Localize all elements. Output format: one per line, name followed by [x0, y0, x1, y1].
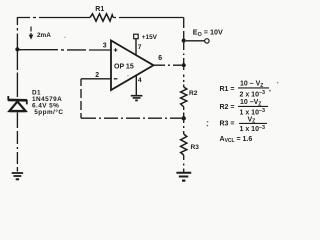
pin 7 wire — [135, 39, 137, 55]
wire feedback vertical — [80, 79, 82, 118]
ground op-amp — [131, 96, 143, 98]
wire top horizontal right — [113, 17, 184, 19]
node EO junction dot — [182, 39, 186, 43]
node A junction dot left — [15, 47, 19, 51]
current arrow 2mA — [30, 27, 32, 36]
op-amp U1 triangle — [111, 41, 154, 91]
svg-text:R2: R2 — [189, 90, 198, 97]
svg-text:7: 7 — [138, 44, 142, 51]
svg-text:R3 =: R3 = — [220, 120, 235, 127]
wire op-amp output (dash-dot) — [154, 64, 182, 66]
wire zener upper — [16, 52, 18, 98]
zener D1 — [8, 96, 27, 104]
svg-text:5ppm/°C: 5ppm/°C — [34, 108, 63, 116]
wire R2 to feedback node — [183, 107, 185, 117]
wire feedback node to R3 (dashed) — [183, 121, 185, 135]
speck near 2mA — [64, 37, 65, 38]
wire right vertical to EO node — [183, 18, 185, 41]
resistor R1 — [90, 14, 113, 21]
resistor R3 — [181, 134, 187, 155]
svg-text:AVCL = 1.6: AVCL = 1.6 — [220, 136, 253, 144]
node output junction dot — [182, 63, 186, 67]
speck right of R2 formula — [269, 90, 271, 92]
svg-text:R2 =: R2 = — [220, 104, 235, 111]
wire output node to R2 (dashed) — [183, 67, 185, 87]
ground left — [12, 173, 23, 176]
wire zener lower — [16, 113, 18, 172]
svg-text:R1 =: R1 = — [220, 86, 235, 93]
wire EO stub — [186, 40, 205, 42]
ground right — [176, 173, 191, 177]
svg-text:2: 2 — [95, 72, 99, 79]
wire left vertical upper — [16, 17, 18, 50]
speck colon left of R3 formula — [207, 121, 209, 123]
terminal EO circle — [205, 39, 209, 43]
wire feedback horizontal (dash-dot) — [81, 117, 182, 119]
node feedback junction dot — [182, 116, 186, 120]
svg-text:R1: R1 — [95, 6, 104, 13]
wire right vertical EO to output node (dashed) — [183, 43, 185, 64]
svg-text:4: 4 — [138, 77, 142, 84]
wire R3 to ground (dashed) — [183, 155, 185, 172]
svg-text:EO = 10V: EO = 10V — [193, 27, 223, 37]
speck top right — [277, 82, 279, 84]
svg-text:+15V: +15V — [142, 34, 158, 41]
terminal +15V square — [134, 34, 139, 39]
svg-text:3: 3 — [103, 43, 107, 50]
svg-text:OP 15: OP 15 — [114, 63, 134, 70]
svg-text:6: 6 — [158, 55, 162, 62]
op-amp minus sign — [114, 78, 118, 80]
pin 4 wire — [135, 76, 137, 96]
wire noninverting input horizontal — [17, 49, 111, 51]
svg-text:2mA: 2mA — [37, 32, 51, 39]
op-amp plus sign — [114, 48, 118, 52]
svg-text:R3: R3 — [191, 144, 200, 151]
wire inverting input horizontal — [81, 78, 112, 80]
resistor R2 — [181, 87, 187, 107]
wire top horizontal left — [17, 17, 90, 19]
